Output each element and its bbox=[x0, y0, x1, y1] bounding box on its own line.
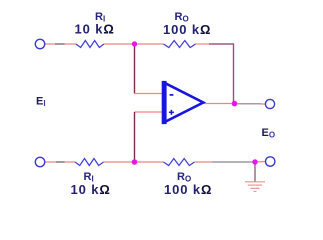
wire: vertical feedback down to output node bbox=[233, 44, 235, 104]
terminal bottom-left bbox=[35, 157, 44, 166]
op-amp minus sign bbox=[170, 94, 174, 96]
wire: top-left gray overlap segment bbox=[55, 43, 65, 45]
resistor RO top zigzag bbox=[164, 41, 196, 48]
wire: node B to RO bottom bbox=[135, 161, 164, 163]
wire: horizontal into non-inverting input bbox=[135, 111, 165, 113]
wire: horizontal into inverting input bbox=[135, 93, 165, 95]
wire: vertical from non-inverting input down to node B bbox=[134, 112, 136, 162]
wire: bottom-left gray overlap segment bbox=[56, 161, 65, 163]
resistor RI bottom zigzag bbox=[75, 159, 104, 166]
terminal output right bbox=[265, 99, 274, 108]
wire: op-amp output to output node bbox=[204, 103, 235, 105]
wire: RO top right lead bbox=[196, 43, 210, 45]
wire: node A to RO top bbox=[135, 43, 164, 45]
terminal bottom-right bbox=[266, 157, 275, 166]
wire: vertical node A down to inverting input bbox=[134, 44, 136, 94]
op-amp U1 bbox=[162, 81, 204, 124]
svg-text:EO: EO bbox=[262, 127, 276, 140]
svg-text:EI: EI bbox=[36, 95, 46, 108]
op-amp plus sign bbox=[169, 111, 174, 113]
wire: RO bottom to ground node (gray) bbox=[212, 161, 255, 163]
junction node B bbox=[132, 159, 138, 165]
wire: RO bottom right lead bbox=[195, 161, 213, 163]
wire: top-left input lead bbox=[45, 43, 76, 45]
wire: bottom-left input lead bbox=[45, 161, 75, 163]
wire: RO top to corner (dark) bbox=[209, 43, 234, 45]
resistor RI top zigzag bbox=[76, 41, 104, 48]
svg-text:10 kΩ: 10 kΩ bbox=[71, 182, 111, 197]
wire: output node to output terminal (gray) bbox=[235, 103, 263, 105]
terminal top-left bbox=[35, 39, 44, 48]
wire: salmon tip at output terminal bbox=[260, 103, 265, 105]
junction node A bbox=[132, 41, 137, 46]
wire: ground node to bottom-right terminal bbox=[255, 161, 265, 164]
ground symbol bbox=[245, 182, 265, 192]
junction output node bbox=[232, 101, 238, 107]
wire: RI top to node A bbox=[104, 43, 135, 45]
svg-text:10 kΩ: 10 kΩ bbox=[75, 22, 115, 37]
junction ground node bbox=[252, 159, 257, 164]
resistor RO bottom zigzag bbox=[164, 159, 195, 166]
svg-text:100 kΩ: 100 kΩ bbox=[163, 22, 211, 37]
wire: ground stem bbox=[254, 162, 256, 182]
svg-text:100 kΩ: 100 kΩ bbox=[164, 182, 212, 197]
wire: RI bottom to node B bbox=[104, 161, 135, 163]
